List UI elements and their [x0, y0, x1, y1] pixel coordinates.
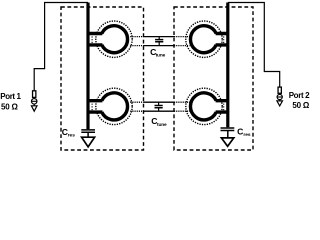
svg-text:Port 1: Port 1 [0, 92, 21, 101]
svg-text:50 Ω: 50 Ω [292, 101, 310, 110]
svg-text:C: C [237, 127, 243, 137]
svg-text:50 Ω: 50 Ω [1, 102, 19, 111]
svg-text:tune: tune [157, 122, 167, 128]
svg-text:tune: tune [156, 53, 166, 59]
svg-text:res: res [243, 132, 251, 138]
svg-text:res: res [68, 133, 76, 139]
svg-text:Port 2: Port 2 [289, 91, 310, 100]
